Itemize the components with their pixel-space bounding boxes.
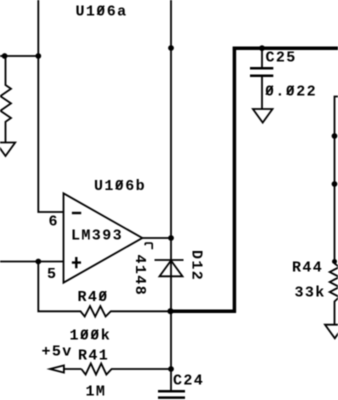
wire: vertical net into pin 6 [38, 0, 63, 212]
svg-text:U106b: U106b [94, 178, 146, 195]
node: junction dot at output [168, 235, 174, 241]
svg-text:6: 6 [49, 214, 59, 231]
node: junction dot pin5 [35, 259, 41, 265]
node: junction dot right net upper [332, 133, 338, 139]
slash for zero in U106b [116, 180, 123, 189]
slashes for zeros in 100k [81, 330, 88, 339]
op-amp U106b body [64, 193, 143, 282]
capacitor C24 [158, 391, 185, 397]
node: junction dot at R44 top [332, 259, 337, 264]
node: junction dot right net lower [332, 181, 338, 187]
svg-text:R41: R41 [78, 348, 109, 365]
op-amp minus sign [72, 212, 81, 214]
svg-text:+5v: +5v [42, 344, 73, 361]
slashes for zeros in 0.022 [266, 86, 273, 95]
pin 7 label (rotated small) [145, 243, 152, 249]
svg-text:C24: C24 [173, 373, 204, 390]
svg-text:4148: 4148 [131, 255, 148, 297]
node: junction dot bus/R40/vertical [167, 308, 173, 314]
ground (left resistor) [0, 143, 15, 157]
thick bus wire (output net) [170, 47, 338, 313]
ground (C25) [253, 109, 273, 123]
svg-text:R40: R40 [78, 289, 109, 306]
resistor R44 [330, 264, 338, 325]
slash for zero in R40 [99, 291, 106, 300]
svg-text:U106a: U106a [76, 4, 128, 21]
svg-text:D12: D12 [188, 250, 205, 281]
diode D12 [155, 260, 184, 276]
resistor R41 [81, 364, 171, 375]
wire: pin 5 horizontal net [0, 261, 64, 263]
node: junction dot on vertical at y48 [168, 45, 174, 51]
svg-text:LM393: LM393 [71, 228, 123, 245]
svg-text:1M: 1M [86, 384, 107, 400]
wire: op-amp output to node [142, 237, 171, 239]
wire: left horizontal net at top [0, 55, 38, 57]
resistor R40 [38, 262, 170, 317]
ground (R44, clipped) [325, 325, 338, 339]
node: junction dot at C24 top [168, 366, 174, 372]
capacitor C25 [250, 50, 273, 109]
node: junction dot C25 on bus [259, 45, 265, 51]
wire: long vertical net x=171 [170, 0, 172, 391]
svg-text:R44: R44 [292, 260, 323, 277]
svg-text:C25: C25 [266, 50, 297, 67]
node: junction dot at vertical wire [35, 53, 41, 59]
svg-text:100k: 100k [70, 328, 112, 345]
slash for zero in U106a [97, 6, 104, 15]
op-amp plus sign [72, 257, 81, 268]
wire: right edge net into R44 [335, 97, 338, 264]
power +5v arrow [50, 365, 81, 372]
node: junction dot left [2, 53, 8, 59]
resistor (left, unlabeled) vertical [0, 56, 11, 143]
svg-text:5: 5 [47, 266, 57, 283]
svg-text:33k: 33k [295, 285, 326, 302]
